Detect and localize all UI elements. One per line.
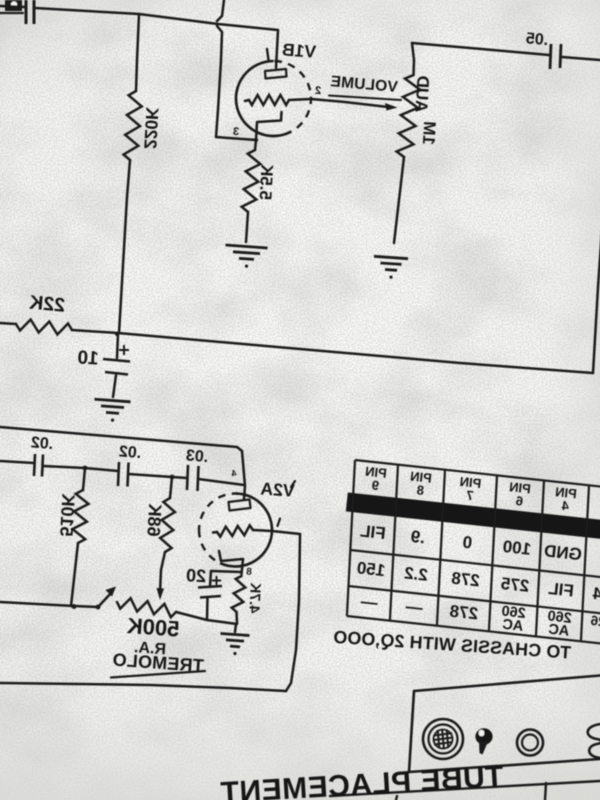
svg-text:AC: AC [501,617,524,635]
svg-text:V1B: V1B [281,39,316,61]
svg-text:150: 150 [356,558,386,580]
svg-text:1M: 1M [419,121,439,146]
svg-text:FIL: FIL [359,521,386,543]
svg-text:.02: .02 [118,443,142,462]
svg-text:510K: 510K [56,493,78,537]
svg-text:AC: AC [547,621,570,639]
svg-text:500K: 500K [126,613,180,642]
svg-text:5.5K: 5.5K [256,163,277,201]
svg-text:220K: 220K [140,106,162,149]
svg-text:278: 278 [449,602,479,624]
svg-text:AUD: AUD [412,75,433,113]
svg-text:20: 20 [186,565,207,586]
svg-text:.03: .03 [185,447,209,466]
svg-text:10: 10 [77,347,99,369]
svg-text:—: — [405,597,424,618]
svg-text:V2A: V2A [260,478,296,500]
svg-text:—: — [360,592,379,613]
svg-text:.9: .9 [410,527,426,547]
svg-text:275: 275 [500,574,530,596]
svg-text:68K: 68K [143,503,165,537]
svg-text:FIL: FIL [547,579,574,601]
svg-text:2.2: 2.2 [403,563,429,584]
svg-text:278: 278 [450,569,480,591]
svg-text:100: 100 [502,537,532,559]
svg-text:GND: GND [543,541,583,564]
svg-text:4.7K: 4.7K [245,582,263,614]
svg-text:.05: .05 [525,30,549,49]
svg-text:.02: .02 [30,434,54,453]
svg-text:2: 2 [315,85,322,97]
svg-text:22K: 22K [28,292,66,317]
svg-text:3: 3 [233,126,240,138]
svg-text:4: 4 [231,468,237,478]
